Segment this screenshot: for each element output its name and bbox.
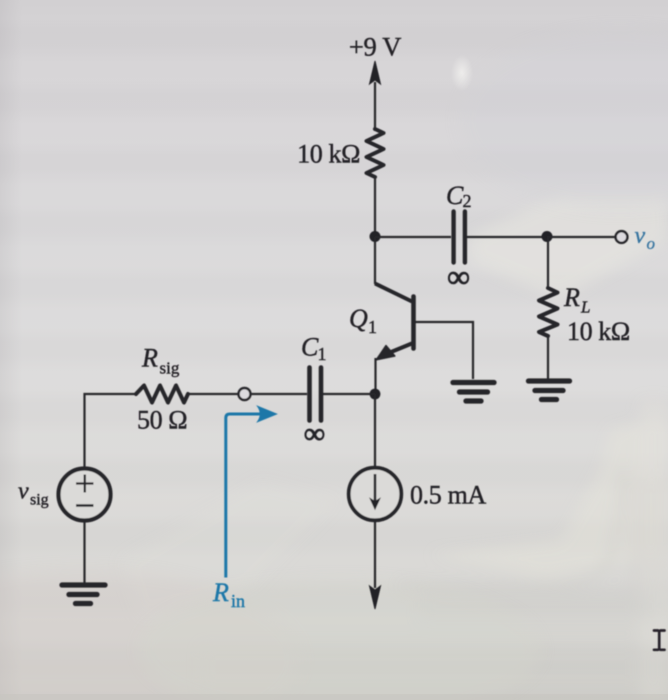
svg-text:R: R [563,283,580,312]
wire RC bottom to collector node [374,177,376,237]
svg-text:Q: Q [349,304,368,333]
label C1 [301,333,327,365]
label vsig [18,479,49,509]
resistor RL [539,288,558,336]
label Rin (blue) [212,578,245,611]
wire C1 to input terminal [250,393,307,395]
svg-text:10 kΩ: 10 kΩ [297,140,360,169]
svg-text:2: 2 [463,191,472,211]
wire Rsig to vsig source [85,394,137,469]
label Q1 [349,304,377,337]
svg-text:1: 1 [368,317,377,337]
svg-text:+9 V: +9 V [349,32,401,62]
output terminal (open circle) [616,231,628,243]
svg-text:sig: sig [30,492,49,509]
svg-text:o: o [647,234,656,253]
label RL [563,283,590,317]
ground (base) [453,383,494,402]
svg-text:50 Ω: 50 Ω [137,406,187,435]
arrow (current return, down) [370,586,381,609]
Rin measurement arrow (blue) [226,414,262,578]
svg-text:0.5 mA: 0.5 mA [410,481,486,510]
svg-text:L: L [580,298,590,317]
wire current source to bottom arrow [374,520,376,588]
svg-text:1: 1 [318,344,327,364]
svg-text:∞: ∞ [447,259,469,294]
wire emitter node to C1 [323,393,375,395]
svg-text:C: C [301,333,319,362]
wire vsig to ground [83,521,85,584]
svg-text:10 kΩ: 10 kΩ [567,317,630,346]
node emitter junction [370,389,381,400]
svg-text:v: v [18,479,29,505]
node output junction [542,231,553,242]
wire node to C2 [375,236,451,238]
ground (RL) [529,381,570,400]
wire collector node to Q1 [374,237,376,284]
node collector junction [370,231,381,242]
wire output node down to RL [547,237,549,289]
input terminal (open circle) [239,388,251,400]
faint screen watermark shapes (decorative) [120,195,668,700]
current source 0.5 mA [349,468,402,521]
transistor Q1 [375,284,414,360]
wire emitter down to emitter node [374,358,376,394]
wire node to output terminal [547,236,616,238]
svg-text:in: in [231,591,245,611]
wire emitter node to current source [374,394,376,468]
svg-text:R: R [141,344,158,373]
source vsig [59,469,111,521]
label C2 [446,181,472,211]
VCC supply arrow [370,61,381,131]
svg-text:C: C [446,181,464,210]
resistor RC 10 kOhm [367,129,384,177]
text cursor (I-beam) [654,631,665,650]
capacitor C1 [310,368,322,421]
svg-text:R: R [212,578,229,607]
svg-text:∞: ∞ [304,418,325,450]
wire C2 to output node [467,236,547,238]
label vo (blue) [635,223,656,253]
svg-text:v: v [635,223,646,249]
label Rsig [141,344,180,378]
wire base to ground [415,322,473,379]
ground (vsig) [62,585,105,604]
wire input terminal to Rsig [189,393,239,395]
resistor Rsig 50 Ohm [136,386,188,403]
capacitor C2 [454,212,465,263]
svg-text:sig: sig [160,359,180,378]
wire RL to ground [547,336,549,379]
